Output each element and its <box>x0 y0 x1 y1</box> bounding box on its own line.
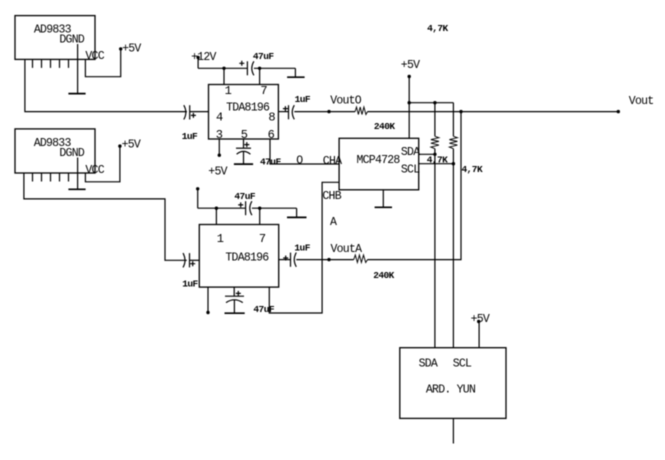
wire C4 to U5 <box>190 259 200 261</box>
node VoutO <box>327 95 362 114</box>
resistor R4 240K <box>329 255 395 281</box>
svg-text:4,7K: 4,7K <box>427 23 448 34</box>
wire SDA to ARD <box>434 154 436 347</box>
ground DGND U2 <box>68 158 85 190</box>
node Vout <box>617 95 654 113</box>
svg-text:SDA: SDA <box>401 146 420 159</box>
svg-text:+5V: +5V <box>208 166 227 179</box>
svg-text:Vout: Vout <box>629 95 654 108</box>
svg-text:47uF: 47uF <box>234 191 255 202</box>
power +5V U6 <box>471 313 490 348</box>
svg-text:1uF: 1uF <box>294 242 310 253</box>
wire C5 to node VoutO <box>294 111 329 113</box>
wire VoutA to Vout line <box>368 112 462 260</box>
svg-text:4: 4 <box>216 111 223 125</box>
wire pullup rail <box>409 102 453 104</box>
power +5V rail U5 <box>196 187 199 208</box>
capacitor C8 1uF (U5 output) <box>279 242 311 266</box>
svg-text:7: 7 <box>260 84 267 98</box>
svg-text:1: 1 <box>225 84 232 98</box>
power +12V <box>191 51 216 69</box>
IC U3 TDA8196 (top) <box>209 84 279 142</box>
node pin7 rail U5 <box>258 207 261 210</box>
power +5V U1 <box>85 42 141 76</box>
svg-text:+12V: +12V <box>191 51 216 64</box>
svg-text:O: O <box>296 155 303 168</box>
svg-text:240K: 240K <box>373 270 394 281</box>
ground U4 <box>375 190 392 208</box>
ground C7 <box>225 300 245 313</box>
wire C1 to pin4 <box>190 111 209 113</box>
wire Vout line <box>368 111 619 113</box>
svg-text:7: 7 <box>259 232 266 246</box>
power stub U5 pin3 <box>206 287 209 314</box>
wire SCL to ARD <box>452 164 454 348</box>
power +5V U2 <box>85 139 141 182</box>
svg-text:1uF: 1uF <box>295 94 311 105</box>
IC U5 TDA8196 (lower) <box>199 225 278 288</box>
svg-text:VoutA: VoutA <box>331 243 363 256</box>
node pin1 rail <box>222 67 225 70</box>
node SDA <box>433 153 436 156</box>
node junction VoutA <box>459 110 462 113</box>
resistor R2 4,7K (SDA pullup) <box>427 103 448 166</box>
IC U1 AD9833 (top) <box>15 16 105 64</box>
capacitor C6 47uF <box>234 191 255 215</box>
wire U2 output to C4 <box>24 173 187 260</box>
svg-text:SCL: SCL <box>453 357 472 370</box>
svg-text:DGND: DGND <box>59 33 84 46</box>
svg-text:+5V: +5V <box>471 313 490 326</box>
svg-text:CHB: CHB <box>322 190 341 203</box>
svg-text:5: 5 <box>241 128 248 142</box>
wire rail to pins 1,7 <box>224 68 260 84</box>
wire U6 bottom stub <box>452 418 454 443</box>
svg-text:240K: 240K <box>374 121 395 132</box>
ground C3 <box>234 151 253 164</box>
svg-text:+5V: +5V <box>401 59 420 72</box>
svg-text:TDA8196: TDA8196 <box>225 252 269 265</box>
power +5V MCP4728 <box>401 59 420 138</box>
IC U2 AD9833 (lower) <box>15 129 105 177</box>
capacitor C2 47uF <box>239 51 274 75</box>
svg-text:DGND: DGND <box>59 147 84 160</box>
node SCL <box>452 162 455 165</box>
wire +12V rail <box>198 67 295 69</box>
node pullup branch <box>408 101 411 104</box>
node pin1 rail U5 <box>215 207 218 210</box>
wire C8 to node VoutA <box>296 259 329 261</box>
svg-text:4,7K: 4,7K <box>462 164 483 175</box>
svg-text:1: 1 <box>217 232 224 246</box>
capacitor C3 47uF (U3 pin5) <box>236 139 281 167</box>
svg-text:SCL: SCL <box>401 163 420 176</box>
svg-text:VCC: VCC <box>85 50 104 63</box>
wire U1 output to C1 <box>25 59 187 111</box>
IC U4 MCP4728 <box>339 138 420 190</box>
node pin7 rail <box>258 67 261 70</box>
wire SDA <box>419 153 435 155</box>
svg-text:+5V: +5V <box>122 42 141 55</box>
wire +5V rail U5 <box>198 207 297 209</box>
power +5V pin3 U3 <box>208 139 227 179</box>
svg-text:47uF: 47uF <box>260 156 281 167</box>
svg-text:1uF: 1uF <box>182 279 198 290</box>
resistor R3 4,7K (SCL pullup) <box>449 103 483 175</box>
wire rail to pins 1,7 U5 <box>216 208 259 224</box>
ground DGND U1 <box>68 44 85 94</box>
svg-text:+5V: +5V <box>122 139 141 152</box>
node VoutA <box>327 243 362 261</box>
svg-text:ARD. YUN: ARD. YUN <box>426 383 475 396</box>
node R2 top <box>433 101 436 104</box>
svg-text:VCC: VCC <box>85 164 104 177</box>
resistor R1 240K <box>329 107 395 132</box>
capacitor C7 47uF (U5 pin5) <box>225 287 275 315</box>
svg-text:1uF: 1uF <box>182 131 198 142</box>
capacitor C4 1uF (U5 input) <box>182 253 198 290</box>
svg-text:6: 6 <box>268 128 275 142</box>
U1 pins <box>33 59 69 68</box>
capacitor C5 1uF (U3 output) <box>278 94 311 119</box>
IC U6 ARD.YUN <box>400 348 506 419</box>
svg-text:47uF: 47uF <box>253 51 274 62</box>
wire pin6 U5 to CHB <box>269 182 339 313</box>
svg-text:VoutO: VoutO <box>330 95 362 108</box>
svg-text:MCP4728: MCP4728 <box>357 154 401 167</box>
svg-text:TDA8196: TDA8196 <box>226 102 270 115</box>
U2 pins <box>33 173 69 182</box>
capacitor C1 1uF (U3 input) <box>182 105 198 142</box>
svg-text:SDA: SDA <box>419 357 438 370</box>
svg-text:A: A <box>330 216 337 229</box>
wire pin6 U3 to CHA <box>270 139 339 164</box>
ground rail U5 <box>287 208 307 217</box>
ground rail <box>287 68 305 77</box>
svg-text:8: 8 <box>268 111 275 125</box>
wire SCL <box>419 163 454 165</box>
